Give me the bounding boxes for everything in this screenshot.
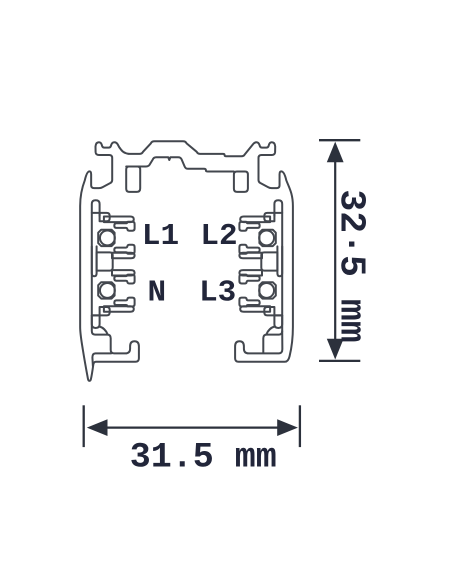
between-module pocket left	[97, 252, 113, 270]
inner notch rect lower-left	[100, 307, 110, 315]
between-module pocket right	[261, 252, 277, 270]
upper bar of lower module right	[239, 270, 262, 275]
horizontal dimension tick left	[83, 405, 85, 447]
conductor pocket L3	[259, 282, 275, 298]
conductor clip finger upper L1	[114, 222, 134, 231]
lower support arm left	[104, 306, 134, 312]
conductor clip finger lower L1	[114, 245, 134, 254]
between-module slot right	[277, 246, 282, 276]
flange hook curve left	[100, 327, 108, 335]
vertical dimension tick bottom	[319, 360, 360, 362]
vertical dimension line	[334, 158, 336, 344]
flange step right	[263, 331, 282, 353]
inner notch rect upper-right	[264, 213, 274, 221]
conductor clip finger upper N	[114, 275, 134, 284]
lower support arm right	[240, 306, 270, 312]
slot crossing line upper-right	[274, 212, 282, 214]
conductor clip finger upper L3	[239, 275, 259, 284]
lower slot right	[274, 315, 282, 328]
vertical dimension arrowhead top	[327, 142, 344, 163]
lower bar of upper module right	[239, 253, 262, 258]
conductor clip finger lower L3	[239, 298, 259, 307]
slot crossing line lower-left	[92, 314, 100, 316]
conductor wire circle L1	[100, 230, 115, 245]
lower bar of upper module left	[112, 253, 135, 258]
inner notch rect upper-left	[100, 213, 110, 221]
cavity roof and inner hump line	[126, 157, 234, 171]
horizontal dimension arrowhead right	[277, 419, 298, 436]
horizontal dimension arrowhead left	[87, 419, 108, 436]
conductor pocket L2	[259, 230, 275, 246]
upper support arm left	[104, 217, 134, 223]
hanging leg pocket right	[234, 172, 248, 192]
track profile outer contour	[80, 141, 293, 381]
svg-text:32·5 mm: 32·5 mm	[331, 189, 372, 342]
upper bar of lower module left	[112, 270, 135, 275]
svg-text:L3: L3	[199, 276, 236, 311]
vertical dimension tick top	[319, 139, 360, 141]
vertical dimension arrowhead bottom	[327, 339, 344, 360]
inner notch rect lower-right	[264, 307, 274, 315]
conductor pocket N	[98, 282, 114, 298]
conductor wire circle N	[100, 283, 115, 298]
conductor clip finger lower L2	[239, 245, 259, 254]
svg-text:N: N	[147, 276, 166, 311]
svg-text:31.5 mm: 31.5 mm	[130, 438, 277, 478]
slot crossing line lower-right	[274, 314, 282, 316]
flange inner-bottom line left	[92, 353, 111, 366]
conductor clip finger lower N	[114, 298, 134, 307]
conductor wire circle L3	[259, 283, 274, 298]
hanging leg pocket left	[126, 167, 140, 192]
svg-text:L1: L1	[142, 219, 179, 254]
horizontal dimension line	[103, 427, 281, 429]
horizontal dimension tick right	[299, 405, 301, 447]
svg-text:L2: L2	[200, 219, 237, 254]
conductor wire circle L2	[259, 230, 274, 245]
upper support arm right	[240, 217, 270, 223]
flange hook curve right	[266, 327, 274, 335]
conductor pocket L1	[98, 230, 114, 246]
slot crossing line upper-left	[92, 212, 100, 214]
conductor clip finger upper L2	[239, 222, 259, 231]
lower slot left	[92, 315, 100, 328]
between-module slot left	[92, 246, 97, 276]
